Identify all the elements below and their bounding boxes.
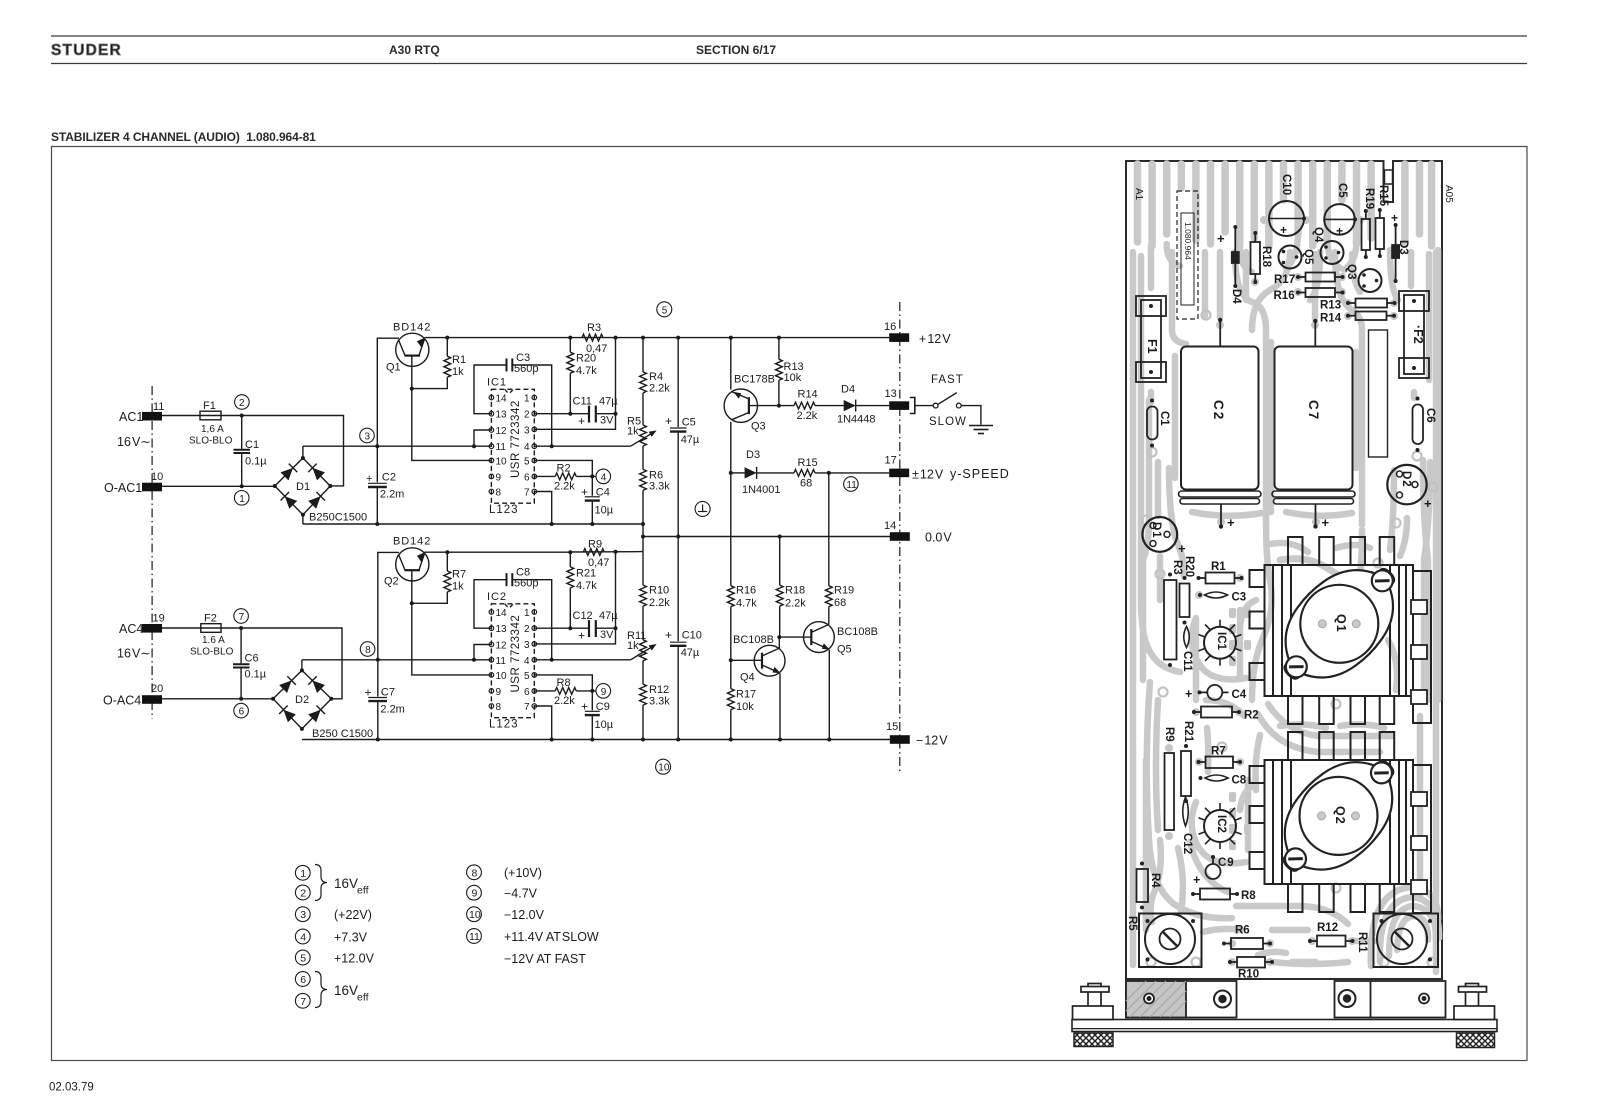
svg-text:D2: D2	[295, 694, 309, 706]
svg-text:2.2k: 2.2k	[649, 383, 670, 395]
svg-text:4: 4	[601, 472, 607, 483]
svg-text:4.7k: 4.7k	[736, 598, 757, 610]
resistor R17 (pcb)	[1306, 273, 1336, 282]
svg-text:2.2k: 2.2k	[649, 597, 670, 609]
svg-text:R7: R7	[452, 569, 466, 581]
svg-text:2.2k: 2.2k	[554, 695, 575, 707]
wire lower regulated rail	[425, 551, 571, 553]
diode D3 (pcb)	[1395, 226, 1397, 280]
resistor R13	[778, 338, 780, 360]
svg-text:R8: R8	[1241, 890, 1256, 902]
svg-text:2.2m: 2.2m	[380, 704, 404, 716]
resistor R15 (pcb)	[1376, 218, 1385, 249]
svg-text:15: 15	[886, 721, 898, 733]
svg-text:9: 9	[601, 687, 607, 698]
svg-text:Q4: Q4	[740, 672, 755, 684]
wire IC1 pin5 down to node4	[534, 460, 592, 476]
fuse F1	[200, 411, 221, 420]
wire fuse F2 to bridge D2 right vertex	[221, 628, 342, 699]
terminal 15 (-12V)	[890, 735, 910, 744]
svg-text:B250C1500: B250C1500	[309, 512, 367, 524]
IC1 pins right 1..7	[532, 395, 537, 494]
svg-text:O-AC1: O-AC1	[104, 481, 142, 495]
transistor Q5 BC108B	[804, 622, 835, 653]
diode D4 (pcb)	[1234, 228, 1236, 285]
svg-text:C1: C1	[1158, 411, 1170, 426]
capacitor C4 (pcb)	[1207, 685, 1222, 700]
svg-text:+: +	[1391, 211, 1398, 225]
svg-text:FAST: FAST	[931, 374, 964, 386]
svg-text:+: +	[1424, 496, 1432, 511]
svg-text:C11: C11	[1181, 651, 1193, 672]
svg-text:R21: R21	[1182, 721, 1194, 743]
IC2 USR 7723342	[491, 604, 534, 718]
svg-text:5: 5	[300, 953, 306, 965]
copper traces (gray)	[1133, 164, 1439, 972]
IC2 pins right 1..7	[532, 610, 537, 709]
svg-text:C10: C10	[682, 630, 702, 642]
svg-text:1: 1	[300, 868, 306, 880]
svg-text:A30 RTQ: A30 RTQ	[389, 43, 440, 57]
svg-text:AC4: AC4	[119, 622, 143, 636]
terminal 16 (+12V)	[889, 333, 909, 342]
svg-text:Q5: Q5	[837, 644, 852, 656]
svg-text:11: 11	[496, 442, 507, 453]
svg-text:O-AC4: O-AC4	[103, 694, 141, 708]
resistor R2 (pcb)	[1201, 707, 1232, 718]
svg-text:4.7k: 4.7k	[576, 365, 597, 377]
svg-text:1k: 1k	[452, 581, 464, 593]
dash-dot boundary line right	[899, 302, 901, 772]
svg-text:4: 4	[300, 932, 306, 944]
gray pads	[1165, 216, 1398, 966]
svg-text:2.2k: 2.2k	[785, 598, 806, 610]
svg-text:16 V∼: 16 V∼	[117, 647, 151, 661]
svg-text:2: 2	[239, 398, 245, 409]
svg-text:3: 3	[365, 432, 371, 443]
capacitor C6 (pcb)	[1413, 405, 1424, 445]
svg-text:+: +	[578, 414, 585, 428]
svg-text:10: 10	[151, 471, 163, 483]
svg-text:Q5: Q5	[1302, 249, 1314, 265]
svg-text:10µ: 10µ	[595, 505, 614, 517]
svg-text:C4: C4	[1232, 689, 1247, 701]
svg-text:10: 10	[496, 671, 508, 682]
svg-text:R2: R2	[1244, 710, 1259, 722]
svg-text:R17: R17	[736, 689, 756, 701]
resistor R10 (pcb)	[1237, 957, 1265, 968]
svg-text:0.1µ: 0.1µ	[245, 669, 267, 681]
svg-text:7: 7	[239, 612, 245, 623]
terminal AC1 (pin 11)	[142, 412, 162, 421]
resistor R9 (pcb)	[1165, 753, 1175, 830]
resistor R12	[640, 661, 671, 740]
terminal O-AC4 (pin 20)	[142, 695, 162, 704]
svg-text:A05: A05	[1443, 185, 1454, 203]
svg-text:± 12 V: ± 12 V	[912, 468, 944, 482]
node 6	[234, 703, 249, 718]
resistor R20 (pcb)	[1180, 584, 1190, 618]
svg-text:11: 11	[469, 931, 480, 943]
svg-text:0,47: 0,47	[588, 557, 609, 569]
svg-text:R12: R12	[1317, 922, 1338, 934]
svg-text:R7: R7	[1211, 746, 1226, 758]
resistor R17	[730, 660, 732, 688]
transistor Q1 BD142	[396, 333, 429, 366]
svg-text:D4: D4	[841, 384, 855, 396]
svg-text:R11: R11	[1356, 932, 1368, 953]
capacitor C4 10u	[591, 476, 593, 495]
wire IC2 pin13 loop to C8	[474, 580, 506, 629]
svg-text:10: 10	[469, 909, 481, 921]
transistor Q5 (pcb)	[1279, 246, 1302, 269]
svg-text:10k: 10k	[784, 372, 802, 384]
capacitor C5 47u	[677, 338, 679, 427]
svg-text:Q3: Q3	[751, 421, 766, 433]
wire O-AC4 to bridge D2 left vertex	[162, 698, 273, 700]
svg-text:− 12 V: − 12 V	[916, 734, 948, 748]
svg-text:·F2: ·F2	[1411, 325, 1425, 344]
svg-text:C1: C1	[245, 439, 259, 451]
svg-text:R16: R16	[736, 585, 756, 597]
resistor R1 (pcb)	[1206, 573, 1235, 584]
resistor R1	[446, 338, 448, 357]
svg-text:F2: F2	[204, 613, 217, 625]
svg-text:R18: R18	[1260, 246, 1272, 268]
knurled foot right	[1457, 1033, 1495, 1048]
resistor R21	[569, 552, 571, 567]
svg-text:5: 5	[524, 456, 530, 467]
svg-text:R5: R5	[1126, 916, 1138, 931]
node 8	[360, 642, 375, 657]
wire IC2 pin5 down to node9	[534, 675, 592, 691]
svg-text:R3: R3	[587, 322, 601, 334]
wire corner up to 0V	[642, 524, 644, 552]
wire Q2 base to IC2 pin 10	[412, 570, 492, 675]
svg-text:USR 7723342: USR 7723342	[510, 615, 522, 693]
resistor R13 (pcb)	[1356, 299, 1388, 308]
wire jog to IC1 pin 12	[474, 430, 491, 446]
svg-text:(+22V): (+22V)	[334, 908, 372, 922]
svg-text:SECTION 6/17: SECTION 6/17	[696, 43, 776, 57]
diode D1 (pcb)	[1142, 517, 1177, 552]
resistor R9 0,47 on rail	[583, 549, 604, 556]
svg-text:R19: R19	[1363, 188, 1375, 209]
resistor R2 on pin6 wire	[534, 475, 555, 477]
transistor Q2 TO-3 can	[1258, 735, 1420, 897]
svg-text:C12: C12	[573, 610, 593, 622]
svg-text:−4.7V: −4.7V	[504, 887, 538, 901]
svg-text:R15: R15	[798, 457, 818, 469]
svg-text:D3: D3	[1397, 240, 1409, 255]
svg-text:C12: C12	[1181, 833, 1193, 854]
svg-text:R15: R15	[1377, 185, 1389, 207]
svg-text:R10: R10	[649, 585, 669, 597]
dash-dot boundary line left	[151, 386, 153, 719]
resistor R7 (pcb)	[1206, 757, 1234, 769]
svg-text:1: 1	[239, 494, 245, 505]
svg-text:9: 9	[496, 687, 502, 698]
svg-text:+ 12 V: + 12 V	[919, 332, 951, 346]
svg-text:R16: R16	[1274, 290, 1295, 302]
svg-text:Q1: Q1	[386, 362, 401, 374]
svg-text:+: +	[1322, 515, 1330, 530]
capacitor C12 47u 3V	[588, 620, 590, 637]
svg-text:C3: C3	[1232, 592, 1247, 604]
svg-text:1k: 1k	[627, 640, 639, 652]
svg-text:13: 13	[885, 388, 897, 400]
middle column between C2 and C7	[1252, 520, 1272, 700]
svg-text:16 V∼: 16 V∼	[117, 435, 151, 449]
svg-text:+: +	[1227, 515, 1235, 530]
junction node2	[240, 414, 244, 418]
svg-text:D1: D1	[296, 481, 310, 493]
svg-text:D 2: D 2	[1400, 471, 1412, 487]
svg-text:5: 5	[524, 671, 530, 682]
svg-text:R18: R18	[785, 585, 805, 597]
node 5	[657, 302, 672, 317]
wire IC2 pin7 to -12V rail	[534, 706, 551, 740]
svg-text:7: 7	[524, 702, 530, 713]
svg-text:0.1µ: 0.1µ	[245, 456, 267, 468]
svg-text:47µ: 47µ	[681, 647, 700, 659]
ground (switch)	[969, 426, 993, 434]
capacitor C8 560p	[506, 573, 508, 586]
svg-text:5: 5	[662, 305, 668, 316]
terminal 17	[889, 469, 909, 478]
capacitor C7	[377, 660, 379, 697]
svg-text:y-SPEED: y-SPEED	[950, 467, 1010, 481]
resistor R19 (pcb)	[1362, 219, 1371, 250]
wire Q3 base row	[749, 405, 794, 407]
svg-text:F1: F1	[1145, 339, 1159, 354]
capacitor C7 (pcb)	[1314, 322, 1316, 347]
node 10 legend	[467, 907, 482, 922]
resistor R3 (pcb)	[1164, 580, 1177, 660]
svg-text:6: 6	[524, 687, 530, 698]
svg-text:2.2m: 2.2m	[380, 489, 404, 501]
resistor R21 (pcb)	[1181, 751, 1191, 796]
svg-text:B D 1 4 2: B D 1 4 2	[393, 322, 430, 334]
capacitor C2	[376, 446, 378, 482]
capacitor C12 (pcb)	[1183, 797, 1189, 826]
resistor R16 (pcb)	[1306, 288, 1336, 297]
svg-text:I C 1: I C 1	[487, 377, 506, 389]
capacitor C6	[240, 628, 242, 663]
svg-text:Q2: Q2	[384, 576, 399, 588]
capacitor C11 (pcb)	[1184, 627, 1190, 648]
resistor R16	[727, 586, 734, 607]
svg-text:+: +	[578, 629, 585, 643]
wire IC1 pin13 loop to C3	[474, 365, 506, 414]
node 3 legend	[295, 907, 310, 922]
svg-text:20: 20	[151, 683, 163, 695]
trimmer R11 (pcb)	[1374, 914, 1439, 968]
svg-text:L 1 2 3: L 1 2 3	[489, 719, 517, 731]
svg-text:1.080.964: 1.080.964	[1183, 222, 1193, 260]
svg-text:16: 16	[884, 321, 896, 333]
resistor R18	[779, 537, 781, 586]
svg-text:12: 12	[496, 641, 508, 652]
svg-text:7: 7	[524, 488, 530, 499]
svg-text:17: 17	[885, 455, 897, 467]
svg-text:+: +	[1336, 224, 1343, 238]
capacitor C1	[241, 416, 243, 449]
node 2 legend	[295, 885, 310, 900]
node 7 legend	[295, 993, 310, 1008]
IC2 area	[1192, 802, 1246, 863]
svg-text:C10: C10	[1280, 174, 1292, 195]
resistor R14	[794, 402, 815, 409]
wire IC1 pin4 to R5 wiper	[534, 445, 630, 447]
trimmer R5 (pcb)	[1139, 914, 1202, 968]
svg-text:19: 19	[153, 613, 165, 625]
fuse F2	[201, 624, 221, 633]
capacitor C3 560p	[506, 359, 508, 372]
trimmer R11	[627, 606, 646, 661]
svg-text:R20: R20	[1183, 556, 1195, 577]
mounting block left	[1126, 981, 1237, 1018]
svg-text:A1: A1	[1133, 188, 1144, 201]
terminal O-AC1 (pin 10)	[142, 483, 162, 492]
svg-text:F1: F1	[203, 400, 216, 412]
svg-text:3: 3	[524, 425, 530, 436]
node 7	[234, 609, 249, 624]
svg-text:+: +	[581, 485, 588, 499]
svg-text:STABILIZER 4 CHANNEL (AUDIO): STABILIZER 4 CHANNEL (AUDIO) 1.080.964-8…	[51, 130, 316, 144]
wire jog to IC2 pin 12	[474, 645, 491, 660]
under Q1 heatsink	[1280, 559, 1368, 582]
node 9	[596, 684, 611, 699]
svg-text:6: 6	[239, 707, 245, 718]
mounting block right	[1335, 981, 1446, 1018]
svg-text:13: 13	[496, 410, 508, 421]
svg-text:C5: C5	[682, 417, 696, 429]
wire Q3-collector chain down to R16	[730, 473, 732, 586]
trimmer R5	[627, 393, 646, 446]
svg-text:68: 68	[800, 478, 812, 490]
heatsink Q1	[1250, 537, 1432, 724]
capacitor C9 (pcb)	[1206, 864, 1221, 879]
svg-text:AC1: AC1	[119, 410, 143, 424]
svg-text:R6: R6	[1235, 925, 1250, 937]
svg-text:I C 2: I C 2	[487, 591, 506, 603]
svg-text:R3: R3	[1171, 560, 1183, 575]
svg-text:3V: 3V	[600, 415, 614, 427]
svg-text:C6: C6	[245, 653, 259, 665]
svg-text:−12V AT FAST: −12V AT FAST	[504, 952, 586, 966]
resistor R8 on pin6 wire	[534, 690, 555, 692]
IC1 (pcb)	[1204, 627, 1236, 659]
wire feed up to Q2 collector	[378, 552, 399, 659]
svg-text:+: +	[581, 700, 588, 714]
resistor R20	[569, 338, 571, 353]
standoff right	[1454, 984, 1495, 1020]
svg-text:+: +	[1217, 231, 1225, 246]
svg-text:14: 14	[884, 520, 896, 532]
svg-text:16V: 16V	[334, 983, 358, 998]
wire +22V feed up to Q1 collector	[377, 338, 399, 446]
node 11 legend	[467, 929, 482, 944]
node 2	[235, 395, 250, 410]
svg-text:8: 8	[496, 488, 502, 499]
svg-text:+: +	[366, 473, 372, 485]
svg-text:10: 10	[658, 763, 670, 774]
svg-text:1N4448: 1N4448	[837, 414, 876, 426]
svg-text:7: 7	[300, 996, 306, 1008]
terminal 13	[889, 401, 909, 410]
transistor Q3 (pcb)	[1359, 269, 1382, 292]
svg-text:C7: C7	[381, 687, 395, 699]
svg-text:8: 8	[365, 645, 371, 656]
between heatsinks	[1268, 704, 1392, 736]
svg-text:47µ: 47µ	[681, 434, 700, 446]
svg-text:R8: R8	[557, 677, 571, 689]
capacitor C10 47u	[677, 537, 679, 642]
svg-text:BC108B: BC108B	[837, 626, 878, 638]
resistor R10	[640, 552, 671, 609]
capacitor C5 (pcb)	[1324, 204, 1355, 235]
svg-text:USR 7723342: USR 7723342	[510, 400, 522, 478]
wire node11 down to R19	[828, 473, 830, 586]
node 9 legend	[467, 885, 482, 900]
svg-text:+: +	[1185, 687, 1192, 701]
svg-text:9: 9	[472, 888, 478, 900]
knurled foot left	[1074, 1033, 1113, 1047]
svg-text:C11: C11	[573, 396, 592, 408]
bottom left sweep	[1147, 682, 1232, 918]
svg-text:IC2: IC2	[1215, 815, 1227, 833]
svg-text:+11.4V AT SLOW: +11.4V AT SLOW	[504, 930, 599, 944]
svg-text:560p: 560p	[514, 578, 538, 590]
capacitor C10 (pcb)	[1269, 201, 1304, 236]
extra density traces	[1217, 252, 1224, 318]
heatsink Q2	[1250, 732, 1432, 913]
wire IC2 pin4 to R11 wiper	[534, 659, 630, 661]
resistor R8 (pcb)	[1200, 889, 1230, 900]
node 1	[234, 491, 249, 506]
svg-text:68: 68	[834, 597, 846, 609]
svg-text:16V: 16V	[334, 876, 358, 891]
node 4 legend	[295, 929, 310, 944]
svg-text:3.3k: 3.3k	[649, 696, 670, 708]
svg-text:D3: D3	[746, 449, 760, 461]
svg-text:8: 8	[496, 702, 502, 713]
svg-text:+: +	[1193, 873, 1200, 887]
capacitor C9 10u	[591, 691, 593, 710]
wire IC2 pin2 row	[534, 627, 588, 629]
svg-text:C2: C2	[1211, 400, 1226, 421]
svg-text:+: +	[1178, 541, 1186, 556]
svg-text:L 1 2 3: L 1 2 3	[489, 504, 517, 516]
wire C12/pin3 to rail	[534, 552, 615, 644]
wire 0.0V rail	[643, 536, 891, 538]
svg-text:4: 4	[524, 656, 530, 667]
svg-text:R14: R14	[798, 389, 818, 401]
standoff left	[1073, 984, 1114, 1020]
svg-text:3: 3	[300, 909, 306, 921]
node 3	[360, 428, 375, 443]
svg-text:D 1: D 1	[1150, 522, 1162, 538]
junction node7	[239, 626, 243, 630]
svg-text:12: 12	[496, 426, 508, 437]
svg-text:1k: 1k	[627, 426, 639, 438]
PCB board outline with top notch	[1126, 161, 1442, 979]
svg-text:3V: 3V	[600, 629, 614, 641]
svg-text:IC1: IC1	[1215, 632, 1227, 651]
svg-text:11: 11	[496, 656, 507, 667]
diode D2 (pcb)	[1387, 465, 1426, 504]
